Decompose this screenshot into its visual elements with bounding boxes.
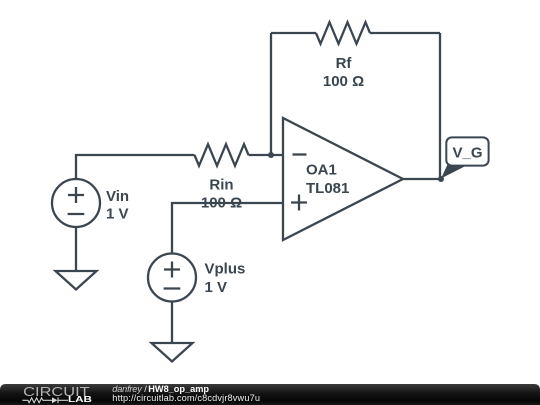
wire op-amp non-inverting input to Vplus (172, 203, 283, 254)
svg-text:http://circuitlab.com/c8cdvjr8: http://circuitlab.com/c8cdvjr8vwu7u (112, 393, 260, 403)
net flag V_G box (446, 137, 488, 165)
Vin plus sign (68, 187, 84, 203)
logo diode cathode bar (57, 397, 59, 403)
svg-text:Vplus: Vplus (205, 261, 246, 278)
svg-text:1 V: 1 V (205, 279, 228, 296)
svg-text:TL081: TL081 (306, 180, 349, 197)
wire feedback top left horizontal (271, 32, 316, 34)
resistor Rin body (195, 144, 249, 166)
svg-text:OA1: OA1 (306, 162, 337, 179)
ground under Vin (56, 271, 97, 290)
voltage source Vin circle (52, 179, 100, 227)
wire Vplus bottom to ground (171, 302, 173, 344)
wire feedback top right horizontal (370, 32, 440, 34)
logo wire right (58, 399, 68, 401)
Vin minus sign (68, 213, 85, 215)
junction node at output (438, 176, 444, 182)
svg-text:100 Ω: 100 Ω (323, 73, 364, 90)
svg-text:LAB: LAB (68, 394, 92, 404)
wire Vin bottom to ground (75, 227, 77, 271)
logo schematic wire (22, 397, 68, 403)
svg-text:1 V: 1 V (106, 206, 129, 223)
op-amp non-inverting input marker (291, 195, 307, 211)
logo diode triangle (52, 397, 58, 403)
op-amp inverting input marker (293, 153, 307, 155)
wire Rin to op-amp inverting input (249, 154, 284, 156)
svg-text:V_G: V_G (452, 145, 482, 162)
logo wire middle (43, 399, 52, 401)
wire op-amp output (403, 178, 441, 180)
ground under Vplus (152, 343, 193, 362)
wire Vin top to Rin (net at inverting input side) (76, 155, 195, 179)
junction node at inverting input (268, 152, 274, 158)
Vplus plus sign (164, 262, 180, 278)
logo resistor zigzag (28, 398, 43, 403)
svg-text:Vin: Vin (106, 188, 129, 205)
op-amp OA1 triangle (283, 118, 403, 240)
svg-text:Rf: Rf (336, 55, 353, 72)
wire feedback right vertical to output (439, 33, 441, 179)
footer watermark bar (0, 384, 540, 405)
wire feedback left vertical (270, 33, 272, 155)
voltage source Vplus circle (148, 254, 196, 302)
resistor Rf body (316, 22, 370, 44)
svg-text:100 Ω: 100 Ω (201, 195, 242, 212)
svg-text:Rin: Rin (209, 177, 233, 194)
Vplus minus sign (164, 287, 181, 289)
net flag V_G pointer (441, 165, 467, 179)
